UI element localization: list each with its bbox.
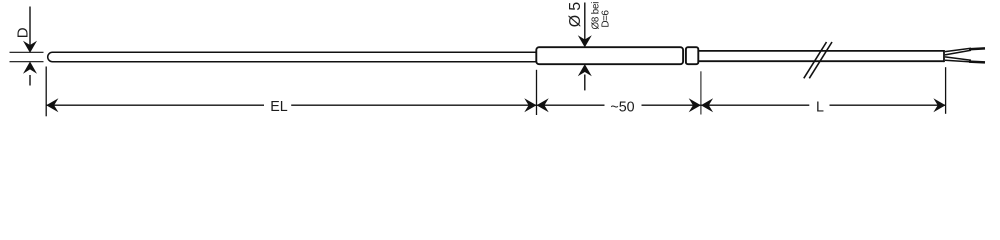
svg-text:~50: ~50 — [610, 100, 634, 116]
dimension diameter 5: lower leader — [584, 75, 586, 91]
dimension D: lower arrow — [23, 62, 37, 74]
dimension line ~50 segment 2 — [642, 104, 701, 106]
dimension diameter 5: upper arrow — [578, 35, 592, 47]
dimension diameter 5: lower arrow — [578, 64, 592, 76]
cable break mark — [804, 42, 832, 78]
arrow EL left — [46, 98, 58, 112]
svg-text:Ø5: Ø5 — [567, 2, 584, 28]
arrow ~50 left — [537, 98, 549, 112]
dimension line L segment 1 — [701, 104, 809, 106]
dimension D: upper arrow — [23, 41, 37, 53]
extension line at collar right — [700, 71, 702, 114]
dimension line EL segment 1 — [46, 104, 264, 106]
lower lead wire — [945, 57, 985, 63]
collar — [686, 47, 698, 64]
extension line EL left (probe tip) — [45, 67, 47, 117]
svg-text:D: D — [14, 27, 31, 38]
cable end cap — [943, 50, 945, 62]
transition sleeve — [536, 47, 683, 64]
arrow EL right — [524, 98, 536, 112]
dimension D: extension line top — [10, 51, 44, 53]
probe sheath tube — [48, 52, 540, 61]
extension line at cable end — [945, 67, 947, 114]
cable bottom line — [698, 60, 944, 62]
svg-text:L: L — [816, 100, 824, 116]
arrow ~50 right — [689, 98, 701, 112]
dimension line ~50 segment 1 — [537, 104, 605, 106]
dimension diameter 5: upper leader — [584, 3, 586, 46]
svg-text:D=6: D=6 — [601, 10, 612, 28]
dimension line L segment 2 — [830, 104, 946, 106]
extension line at sleeve left — [536, 70, 538, 115]
arrow L right — [933, 98, 945, 112]
upper lead wire — [945, 48, 985, 55]
dimension D: upper leader — [29, 7, 31, 50]
arrow L left — [701, 98, 713, 112]
cable top line — [698, 50, 944, 52]
dimension D: lower leader — [29, 75, 31, 86]
svg-text:EL: EL — [270, 99, 288, 115]
dimension D: extension line bottom — [10, 61, 44, 63]
dimension line EL segment 2 — [291, 104, 536, 106]
